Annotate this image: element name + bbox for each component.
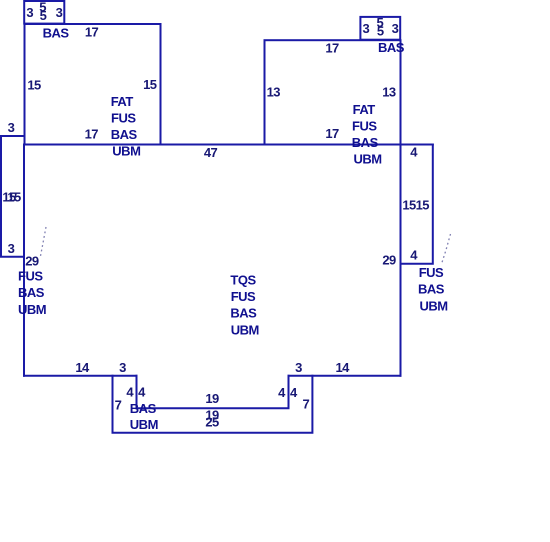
bottom porch inner notch 19x4 <box>137 376 289 409</box>
svg-text:FUS: FUS <box>231 289 256 304</box>
right dotted leader <box>442 234 451 264</box>
svg-text:17: 17 <box>325 126 339 141</box>
svg-text:3: 3 <box>295 360 302 375</box>
small rect top-left bump 5x3 <box>24 1 64 24</box>
left bump 3x15 <box>1 136 24 257</box>
svg-text:3: 3 <box>362 21 369 36</box>
main area top edge incl. right bump top <box>24 144 433 146</box>
svg-text:UBM: UBM <box>354 152 382 167</box>
svg-text:29: 29 <box>25 253 39 268</box>
svg-text:BAS: BAS <box>43 25 70 40</box>
svg-text:BAS: BAS <box>130 401 157 416</box>
svg-text:4: 4 <box>410 145 418 160</box>
svg-text:13: 13 <box>382 85 396 100</box>
svg-text:3: 3 <box>26 5 33 20</box>
svg-text:UBM: UBM <box>112 144 140 159</box>
svg-text:UBM: UBM <box>18 302 46 317</box>
svg-text:FAT: FAT <box>111 94 134 109</box>
svg-text:3: 3 <box>119 360 126 375</box>
svg-text:19: 19 <box>205 391 219 406</box>
svg-text:5: 5 <box>40 8 47 23</box>
svg-text:UBM: UBM <box>130 417 158 432</box>
main area right wall <box>400 145 402 376</box>
right bump 4x15 <box>401 145 433 264</box>
svg-text:17: 17 <box>85 25 99 40</box>
svg-text:7: 7 <box>302 397 309 412</box>
svg-text:BAS: BAS <box>418 282 445 297</box>
svg-text:14: 14 <box>335 360 350 375</box>
svg-text:17: 17 <box>325 40 339 55</box>
svg-text:BAS: BAS <box>378 40 405 55</box>
svg-text:15: 15 <box>143 77 157 92</box>
svg-text:FUS: FUS <box>18 269 43 284</box>
svg-text:BAS: BAS <box>352 135 379 150</box>
svg-text:TQS: TQS <box>230 272 256 287</box>
svg-text:4: 4 <box>138 385 146 400</box>
svg-text:UBM: UBM <box>420 298 448 313</box>
svg-text:BAS: BAS <box>111 127 138 142</box>
svg-text:3: 3 <box>8 241 15 256</box>
svg-text:FUS: FUS <box>352 119 377 134</box>
svg-text:4: 4 <box>410 248 418 263</box>
svg-text:15: 15 <box>7 190 21 205</box>
svg-text:29: 29 <box>382 253 396 268</box>
svg-text:5: 5 <box>377 23 384 38</box>
main area left wall <box>23 145 25 376</box>
svg-text:14: 14 <box>75 360 90 375</box>
bottom porch outer 25x7 <box>113 376 313 433</box>
svg-text:1515: 1515 <box>402 197 429 212</box>
svg-text:25: 25 <box>205 414 219 429</box>
svg-text:7: 7 <box>115 397 122 412</box>
svg-text:FUS: FUS <box>419 265 444 280</box>
svg-text:13: 13 <box>267 85 281 100</box>
svg-text:17: 17 <box>85 127 99 142</box>
svg-text:3: 3 <box>392 21 399 36</box>
left dotted leader <box>41 227 47 256</box>
svg-text:47: 47 <box>204 145 218 160</box>
svg-text:4: 4 <box>290 385 298 400</box>
svg-text:UBM: UBM <box>231 322 259 337</box>
top-right block outline 17x13 <box>265 40 401 144</box>
svg-text:15: 15 <box>27 77 41 92</box>
svg-text:FAT: FAT <box>353 102 376 117</box>
svg-text:BAS: BAS <box>18 285 45 300</box>
svg-text:BAS: BAS <box>230 306 257 321</box>
top-left block outline 17x15 <box>25 24 161 145</box>
svg-text:FUS: FUS <box>111 111 136 126</box>
svg-text:3: 3 <box>8 120 15 135</box>
small rect top-right bump 5x3 <box>360 17 400 40</box>
svg-text:4: 4 <box>278 385 286 400</box>
svg-text:3: 3 <box>56 5 63 20</box>
main bottom edge left segment <box>24 375 137 377</box>
svg-text:4: 4 <box>126 385 134 400</box>
main bottom edge right segment <box>289 375 401 377</box>
